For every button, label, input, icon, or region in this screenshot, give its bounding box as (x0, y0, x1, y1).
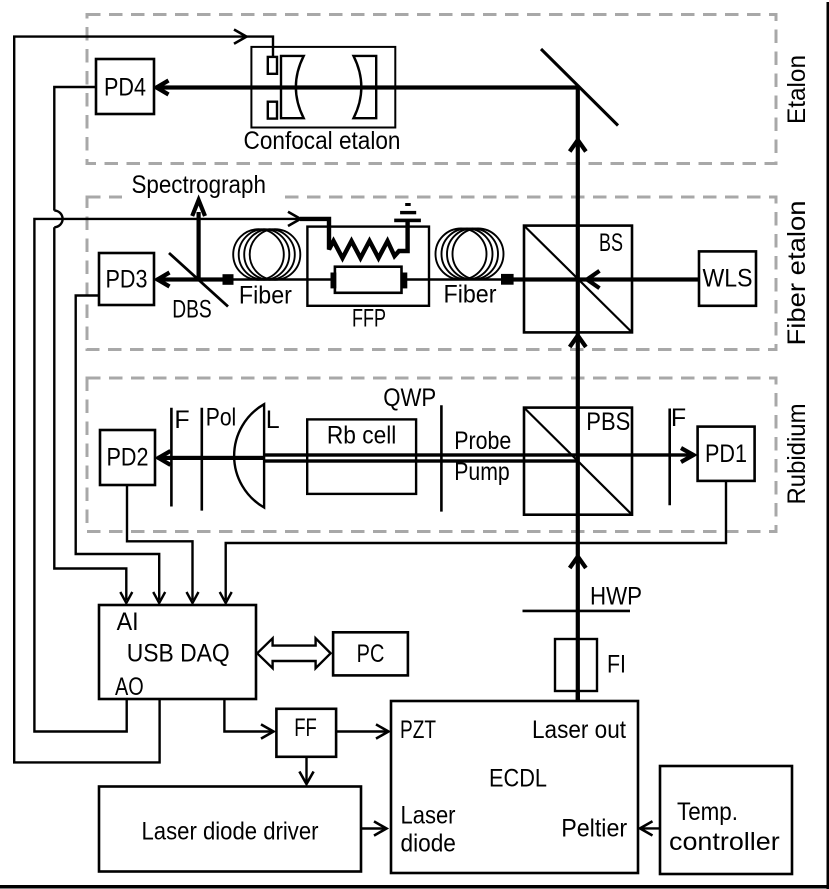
probe/pump beams through Rb cell (307, 453, 416, 462)
wire FF to laser diode driver (299, 756, 313, 784)
wire temp controller to ECDL peltier (640, 821, 660, 835)
fiber coil left (233, 229, 300, 280)
svg-text:WLS: WLS (703, 265, 753, 293)
svg-text:Fiber: Fiber (444, 281, 497, 309)
double arrow DAQ-PC (257, 638, 330, 668)
svg-text:F: F (671, 404, 686, 432)
svg-text:Pol: Pol (206, 403, 237, 431)
frame right edge (827, 2, 829, 889)
beam DBS to PD3 (157, 273, 224, 287)
probe beam (264, 448, 694, 462)
svg-text:Temp.: Temp. (677, 798, 738, 826)
main beam vertical ECDL to mirror (576, 88, 580, 701)
svg-text:AO: AO (115, 673, 144, 701)
svg-text:F: F (174, 406, 189, 434)
FFP cylinder (331, 267, 408, 293)
PBS cube (524, 408, 632, 515)
lens L (234, 404, 280, 507)
label Probe (454, 427, 511, 455)
svg-text:QWP: QWP (383, 384, 436, 412)
confocal etalon piezo lower (268, 102, 277, 119)
dashed box Rubidium section (87, 378, 776, 532)
svg-text:Laser diode driver: Laser diode driver (142, 818, 319, 846)
svg-text:BS: BS (599, 229, 623, 257)
box Laser diode driver (99, 787, 361, 872)
svg-text:FF: FF (294, 714, 317, 742)
svg-text:PD3: PD3 (106, 266, 148, 294)
main beam horizontal mirror to PD4 (156, 81, 579, 95)
svg-text:USB DAQ: USB DAQ (127, 639, 230, 667)
svg-text:Rb cell: Rb cell (327, 422, 397, 450)
wire PD3 to DAQ AI (76, 296, 166, 604)
label Confocal etalon (244, 127, 401, 155)
svg-text:PD1: PD1 (705, 440, 747, 468)
beam WLS to BS (513, 271, 699, 288)
beam from ECDL top (below boxes redraw) (576, 691, 580, 701)
svg-text:controller: controller (669, 828, 780, 856)
box PD1 (698, 427, 755, 481)
svg-text:PBS: PBS (586, 408, 630, 436)
svg-text:Peltier: Peltier (561, 814, 627, 842)
pump beam (264, 459, 578, 462)
svg-text:Etalon: Etalon (783, 55, 811, 124)
label DBS (172, 296, 212, 324)
wire FF to ECDL PZT (337, 724, 389, 738)
wire PD2 to DAQ AI (127, 485, 199, 603)
HWP waveplate line (523, 583, 643, 611)
svg-text:AI: AI (117, 608, 139, 636)
box PC (333, 632, 408, 675)
FFP heater resistor (300, 219, 408, 258)
spectrograph beam up from DBS (192, 200, 205, 281)
box ECDL (391, 701, 638, 873)
label Fiber right (444, 281, 497, 309)
svg-text:diode: diode (401, 829, 456, 857)
svg-text:ECDL: ECDL (489, 764, 547, 792)
box Temp controller (660, 766, 792, 874)
svg-text:FFP: FFP (352, 305, 386, 333)
box PD3 (99, 253, 154, 305)
polarizer Pol (202, 403, 236, 510)
beam lens to PD2 (158, 451, 265, 465)
box Rb cell (307, 419, 416, 494)
svg-text:L: L (266, 406, 280, 434)
confocal etalon outer box (251, 47, 395, 128)
fiber line FFP through connectors (228, 278, 524, 280)
beam arrow up below BS (570, 336, 586, 348)
fiber connector left (223, 274, 234, 285)
DBS (dichroic beamsplitter diagonal) (169, 253, 228, 307)
confocal etalon right mirror (354, 56, 377, 118)
wire AO output to confocal etalon piezo (14, 30, 273, 763)
svg-text:Confocal etalon: Confocal etalon (244, 127, 401, 155)
wire laser diode driver to ECDL laser diode (361, 821, 387, 835)
filter F left (171, 406, 189, 507)
box FFP (307, 227, 429, 306)
wire PD4 to DAQ AI (with jump over) (54, 87, 132, 603)
svg-text:DBS: DBS (172, 296, 212, 324)
confocal etalon piezo upper (268, 57, 277, 74)
label Etalon (rotated) (783, 55, 811, 124)
beam arrow up below mirror (570, 140, 586, 152)
FI faraday isolator box (555, 639, 626, 691)
svg-text:Pump: Pump (454, 458, 510, 486)
box PD2 (100, 430, 155, 485)
wire DAQ AO to FF (224, 699, 273, 739)
confocal etalon left mirror (281, 56, 304, 118)
svg-text:FI: FI (607, 651, 626, 679)
filter F right (670, 404, 686, 505)
svg-text:PD4: PD4 (104, 74, 146, 102)
svg-text:PC: PC (357, 640, 385, 668)
svg-text:Rubidium: Rubidium (783, 404, 811, 505)
svg-text:PD2: PD2 (107, 444, 149, 472)
box USB DAQ (99, 605, 256, 701)
svg-text:PZT: PZT (400, 716, 436, 744)
label Fiber etalon (rotated) (783, 201, 811, 346)
fiber connector right (501, 274, 514, 285)
dashed box Fiber etalon section (87, 197, 776, 350)
box PD4 (96, 59, 154, 114)
mirror (diagonal) top right (541, 49, 618, 126)
box FF (276, 709, 336, 757)
waveplate QWP (383, 384, 441, 512)
dashed box Etalon section (87, 15, 776, 164)
fiber coil right (436, 229, 504, 280)
wire AO output to FFP heater (34, 212, 300, 732)
svg-text:Fiber: Fiber (239, 282, 292, 310)
label Pump (454, 458, 510, 486)
label Fiber left (239, 282, 292, 310)
label FFP (352, 305, 386, 333)
BS cube (524, 226, 632, 333)
svg-text:HWP: HWP (590, 583, 642, 611)
box WLS (699, 251, 756, 305)
FFP fiber line inside (307, 278, 429, 280)
label Spectrograph (122, 169, 279, 202)
ground symbol (394, 203, 421, 222)
wire PD1 to DAQ AI (220, 481, 726, 603)
label Rubidium (rotated) (783, 404, 811, 505)
svg-text:Probe: Probe (454, 427, 511, 455)
svg-text:Laser out: Laser out (532, 716, 626, 744)
beam arrow up below HWP (570, 557, 586, 569)
svg-text:Laser: Laser (401, 802, 456, 830)
frame bottom edge (0, 885, 829, 889)
svg-text:Fiber etalon: Fiber etalon (783, 201, 811, 346)
